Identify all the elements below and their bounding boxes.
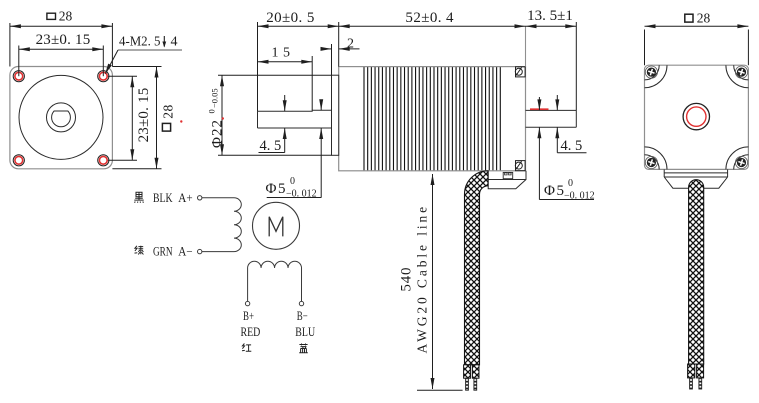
svg-text:0: 0 (568, 178, 574, 189)
svg-text:−0. 012: −0. 012 (564, 190, 595, 201)
svg-text:B−: B− (297, 309, 308, 323)
svg-text:20±0. 5: 20±0. 5 (266, 10, 315, 26)
svg-text:Φ5: Φ5 (266, 181, 287, 197)
svg-text:4: 4 (171, 35, 179, 50)
svg-text:Φ5: Φ5 (544, 183, 565, 199)
svg-text:AWG20 Cable line: AWG20 Cable line (415, 204, 430, 354)
svg-text:28: 28 (161, 104, 176, 119)
svg-text:B+: B+ (243, 309, 254, 323)
svg-text:28: 28 (697, 10, 711, 25)
svg-text:23±0. 15: 23±0. 15 (36, 32, 91, 48)
svg-text:2: 2 (347, 37, 355, 52)
svg-text:540: 540 (398, 267, 414, 292)
svg-text:−0. 012: −0. 012 (286, 188, 317, 199)
svg-text:0: 0 (207, 109, 217, 113)
svg-text:GRN: GRN (153, 245, 173, 259)
svg-text:Φ22: Φ22 (210, 119, 226, 148)
svg-text:A+: A+ (178, 191, 192, 205)
svg-text:52±0. 4: 52±0. 4 (405, 10, 454, 26)
svg-text:−0.05: −0.05 (210, 88, 220, 108)
svg-text:4. 5: 4. 5 (260, 138, 282, 154)
svg-text:13. 5±1: 13. 5±1 (527, 8, 573, 24)
svg-text:4-M2. 5: 4-M2. 5 (119, 35, 161, 50)
svg-text:23±0. 15: 23±0. 15 (136, 88, 152, 143)
svg-text:15: 15 (272, 46, 295, 61)
svg-text:4. 5: 4. 5 (561, 138, 583, 154)
svg-text:BLU: BLU (295, 325, 315, 339)
svg-text:RED: RED (241, 325, 261, 339)
svg-text:0: 0 (290, 176, 296, 187)
svg-text:A−: A− (178, 245, 192, 259)
svg-text:28: 28 (59, 8, 73, 23)
svg-text:BLK: BLK (153, 191, 173, 205)
